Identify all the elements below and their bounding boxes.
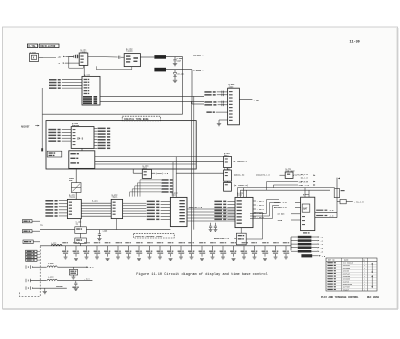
svg-text:CX-201 →: CX-201 → bbox=[193, 54, 204, 57]
capacitor group C201 bbox=[74, 55, 75, 58]
wire battery riser bbox=[336, 181, 338, 218]
label box CLOCK OUT bbox=[154, 68, 166, 72]
wire CM5 to Q205 bbox=[81, 148, 83, 150]
label box X-TAL bbox=[27, 44, 37, 48]
svg-text:-1.5: -1.5 bbox=[329, 215, 333, 217]
wire Q501 B+ display bbox=[315, 211, 337, 213]
svg-text:BAT: BAT bbox=[303, 207, 308, 210]
wire Q103 output lower bbox=[100, 100, 204, 102]
wire row1 left bbox=[33, 266, 47, 268]
svg-text:PLAY AND TIMEBASE CONTROL: PLAY AND TIMEBASE CONTROL bbox=[321, 296, 359, 299]
dashed label DIGITAL TIME BASE bbox=[122, 116, 160, 121]
input label row B1 bbox=[22, 220, 32, 223]
wire Q302 to Q303 bbox=[227, 181, 229, 182]
wire C203 to Q102 bbox=[121, 56, 125, 58]
output labels Q404 right bbox=[253, 200, 256, 202]
wire row3 bbox=[33, 287, 67, 289]
inductor L403 bbox=[47, 279, 57, 280]
svg-text:1: 1 bbox=[364, 281, 365, 283]
svg-text:ADJUST: ADJUST bbox=[21, 125, 30, 128]
wire crystal to supply node bbox=[43, 56, 56, 58]
wire horizontal to DTB box bbox=[43, 113, 183, 115]
svg-text:REGULATOR-1.5: REGULATOR-1.5 bbox=[214, 237, 230, 240]
RC network drops on bus bbox=[62, 242, 68, 259]
wires Q402 to Q403 labels bbox=[123, 202, 147, 204]
wire row B3 bbox=[33, 241, 40, 243]
svg-text:→ MX-3: → MX-3 bbox=[257, 208, 265, 211]
svg-text:Q-501: Q-501 bbox=[303, 193, 310, 196]
svg-text:1: 1 bbox=[364, 268, 365, 270]
wire S402 to bus bbox=[80, 243, 82, 245]
svg-text:L-401: L-401 bbox=[51, 241, 56, 244]
wires fanout to left bbox=[140, 180, 161, 197]
svg-text:C-2065 →: C-2065 → bbox=[193, 69, 204, 72]
svg-text:1: 1 bbox=[364, 265, 365, 267]
label B+ DISPLAY bbox=[316, 210, 323, 211]
wire timebase out upper bbox=[95, 156, 224, 158]
speaker component row1 bbox=[72, 267, 74, 269]
wire timebase internal bbox=[95, 163, 196, 165]
wire Q404 to riser bbox=[254, 212, 263, 214]
wire Q101 to Q103 bbox=[83, 65, 85, 76]
wire row2 to right bbox=[58, 280, 93, 282]
wire sync bend down 2 bbox=[272, 185, 274, 188]
wire Q206 output cont bbox=[176, 172, 223, 174]
wire long vertical D bbox=[193, 96, 195, 229]
svg-text:Figure 11.10 Circuit diagram o: Figure 11.10 Circuit diagram of display … bbox=[136, 272, 268, 277]
input label row B3 bbox=[23, 240, 33, 244]
svg-text:1: 1 bbox=[364, 284, 365, 286]
svg-text:(DISPL)-1.5: (DISPL)-1.5 bbox=[156, 172, 169, 175]
inductor L402 bbox=[47, 266, 57, 267]
svg-text:1: 1 bbox=[364, 276, 365, 278]
wire timebase out mid bbox=[95, 161, 224, 163]
wire riser to regulator line bbox=[262, 213, 264, 240]
wire into Q206 bbox=[132, 169, 134, 173]
battery symbol row3 bbox=[26, 286, 33, 289]
wire left riser bbox=[41, 88, 43, 151]
wire S401 to S402 bbox=[80, 233, 82, 238]
pin labels CM-5 left bbox=[48, 129, 56, 131]
svg-text:CRYSTAL: CRYSTAL bbox=[343, 264, 350, 267]
fuse F501 bbox=[334, 189, 339, 198]
svg-text:BATTERY: BATTERY bbox=[343, 286, 351, 289]
wire power out bbox=[312, 255, 318, 257]
wire B+ to S401 bbox=[40, 229, 75, 231]
parts list table bbox=[326, 258, 377, 291]
wire row B1 bbox=[32, 220, 40, 222]
pin labels Q103 left bbox=[49, 79, 57, 81]
label boxes stack bottom left bbox=[26, 250, 37, 252]
input label row B2 bbox=[22, 230, 32, 233]
wire sync row2 bbox=[273, 184, 298, 186]
wires Q404 top risers bbox=[236, 188, 238, 198]
svg-text:11-30: 11-30 bbox=[350, 41, 360, 45]
svg-text:TRANSF: TRANSF bbox=[343, 288, 349, 291]
svg-text:(SELECT)-1.5: (SELECT)-1.5 bbox=[256, 173, 270, 176]
capacitor C404 with ground bbox=[214, 223, 216, 226]
wire bus B bend to Q201 pins bbox=[192, 103, 204, 105]
svg-text:BATTERY-1.5: BATTERY-1.5 bbox=[274, 206, 287, 209]
battery symbol row1 bbox=[26, 265, 33, 268]
capacitor C402 with ground bbox=[98, 230, 100, 234]
svg-text:DISPLAY: DISPLAY bbox=[343, 272, 351, 275]
output labels CM-5 right bbox=[98, 128, 106, 130]
wire line across bbox=[86, 229, 170, 231]
label box OSCILLATOR bbox=[39, 44, 59, 48]
capacitor C205 with ground bbox=[174, 57, 176, 60]
pin labels Q404 left bbox=[214, 201, 222, 203]
capacitor C203 bbox=[119, 56, 120, 59]
svg-text:75491: 75491 bbox=[112, 196, 119, 199]
svg-text:OSCILLATOR: OSCILLATOR bbox=[40, 45, 56, 48]
IC Q303 divider bbox=[224, 182, 232, 191]
svg-text:REF NO: REF NO bbox=[328, 260, 335, 262]
wire box to trimmer bbox=[75, 169, 77, 183]
wire Q404 down to regulator bbox=[240, 228, 242, 234]
wire Q101 output bbox=[88, 55, 118, 58]
svg-text:← B+-1.5: ← B+-1.5 bbox=[354, 201, 364, 204]
wire elbow bundle B bbox=[250, 203, 279, 217]
svg-text:B. SUPPLY-1: B. SUPPLY-1 bbox=[234, 160, 248, 163]
ground bottom left bbox=[44, 288, 46, 291]
switch box S401 bbox=[75, 227, 87, 234]
capacitor C405 row2 bbox=[75, 281, 77, 283]
svg-text:5316: 5316 bbox=[237, 194, 243, 197]
label below Q501 bbox=[303, 232, 307, 233]
wire row1 to right bbox=[58, 266, 87, 268]
svg-text:CM-5: CM-5 bbox=[77, 137, 84, 140]
svg-text:R-401: R-401 bbox=[92, 199, 99, 202]
wires Q403 top risers bbox=[172, 162, 174, 198]
svg-text:1: 1 bbox=[364, 287, 365, 289]
wire bracket left of Q103 bbox=[41, 113, 43, 115]
wire row2 left bbox=[30, 280, 46, 282]
page edge shadow bottom bbox=[3, 308, 398, 310]
svg-text:1: 1 bbox=[364, 263, 365, 265]
wire Q102 output bbox=[140, 56, 154, 58]
wire regulator output bbox=[246, 238, 262, 240]
svg-text:NAME: NAME bbox=[344, 259, 348, 262]
svg-text:CR-201: CR-201 bbox=[177, 73, 185, 76]
wire Q103 output upper bbox=[100, 95, 204, 97]
output label boxes stack right bbox=[298, 236, 312, 239]
svg-text:BT-1.5: BT-1.5 bbox=[301, 180, 309, 183]
wire Q201 output right bbox=[239, 99, 252, 101]
diode CR201 with ground bbox=[174, 70, 176, 73]
IC Q205 selector box bbox=[69, 151, 95, 169]
wire sync row1 bbox=[267, 181, 298, 183]
pin labels Q201 group1 bbox=[204, 91, 211, 93]
svg-text:74S00: 74S00 bbox=[126, 50, 133, 53]
svg-text:L-402: L-402 bbox=[48, 262, 53, 265]
wire tie vertical right stack bbox=[290, 237, 292, 250]
battery sub box bbox=[302, 204, 310, 212]
wire K501 bbox=[337, 201, 340, 203]
wire elbow bundle C bbox=[250, 206, 279, 219]
regulator Q405 bbox=[236, 233, 246, 245]
wire Q301 to Q302 bbox=[227, 168, 229, 170]
label box 1MHZ OUT bbox=[154, 55, 166, 59]
svg-text:REF 8060: REF 8060 bbox=[367, 296, 380, 299]
wires Q403 to Q404 bbox=[187, 208, 235, 210]
svg-text:X-TAL: X-TAL bbox=[28, 45, 36, 48]
pin labels fanout stack bbox=[161, 179, 168, 181]
capacitor C403 with ground bbox=[210, 223, 212, 226]
svg-text:L-403: L-403 bbox=[48, 276, 53, 279]
wire trimmer down bbox=[75, 192, 77, 199]
wire long vertical C bbox=[190, 101, 192, 245]
ground Q201 bbox=[218, 120, 220, 123]
wire vertical bus B bbox=[191, 70, 193, 104]
svg-text:CR ROM: CR ROM bbox=[278, 213, 286, 216]
svg-text:→ MX-2: → MX-2 bbox=[257, 204, 265, 207]
wire Q102 feedback loop bbox=[96, 66, 131, 69]
svg-text:→ MX-1: → MX-1 bbox=[257, 200, 265, 203]
svg-text:(H. DISPL.H): (H. DISPL.H) bbox=[234, 184, 248, 187]
wire Q501 lower out bbox=[315, 217, 337, 219]
wire supply to caps bbox=[65, 55, 73, 57]
wire clock out bbox=[166, 69, 192, 71]
battery symbol row2 bbox=[26, 279, 30, 282]
pin labels Q201 group3 bbox=[206, 111, 211, 113]
svg-text:(DECOL.H): (DECOL.H) bbox=[234, 174, 245, 177]
wire elbow bundle A bbox=[250, 200, 279, 214]
wires CM-5 to output labels bbox=[94, 127, 97, 129]
svg-text:SYNC -1.5: SYNC -1.5 bbox=[299, 184, 310, 187]
label lower out bbox=[316, 215, 323, 216]
dashed enclosure bottom left bbox=[19, 246, 40, 296]
wire Q206 output to divider chain bbox=[151, 172, 155, 174]
dashed label DISPLAY CONTROL LOGIC bbox=[134, 234, 175, 238]
svg-text:COMMON: COMMON bbox=[56, 286, 62, 288]
switch box S402 bbox=[75, 238, 87, 243]
component K501 on riser bbox=[340, 199, 346, 203]
pin labels Q403 left bbox=[147, 201, 155, 203]
pin labels Q201 group2 bbox=[204, 101, 212, 103]
svg-text:REGULATOR: REGULATOR bbox=[343, 283, 353, 286]
wire Q401 down bbox=[80, 219, 82, 227]
wire main bus bbox=[40, 245, 291, 247]
svg-text:DISPLAY-1.5: DISPLAY-1.5 bbox=[189, 206, 203, 209]
page edge shadow right bbox=[397, 28, 399, 309]
label box power out bbox=[301, 254, 312, 257]
wire fuse top arrow bbox=[336, 178, 338, 181]
wires Q401 to Q402 bbox=[81, 202, 111, 204]
svg-text:1: 1 bbox=[364, 271, 365, 273]
capacitor ticks Q201 pins bbox=[222, 91, 223, 94]
wire Q101 feedback loop bbox=[69, 56, 84, 68]
wire sync band lower bbox=[240, 189, 330, 191]
wire Q402 down to B+ line bbox=[116, 219, 118, 230]
inductor L401 on bus bbox=[51, 244, 62, 246]
connector P101 bbox=[47, 151, 62, 157]
svg-text:→ MX: → MX bbox=[254, 99, 260, 102]
svg-text:1: 1 bbox=[364, 273, 365, 275]
box digital time base outline bbox=[46, 121, 196, 169]
svg-text:1: 1 bbox=[364, 289, 365, 291]
svg-text:75492: 75492 bbox=[69, 196, 76, 199]
wire band risers to Q501 bbox=[304, 188, 306, 198]
wire sync band upper bbox=[237, 187, 334, 189]
svg-text:→ B.V: → B.V bbox=[84, 278, 91, 281]
wire vertical bus A bbox=[182, 57, 184, 115]
wire -C to Q101 bbox=[65, 62, 79, 64]
wire row B2 bbox=[32, 230, 40, 232]
wire sync bend down 1 bbox=[266, 182, 268, 191]
wire to C204 bbox=[166, 56, 183, 58]
svg-text:DISPLAY CONTROL LOGIC: DISPLAY CONTROL LOGIC bbox=[135, 235, 163, 238]
svg-text:1: 1 bbox=[364, 279, 365, 281]
svg-text:-1.5: -1.5 bbox=[329, 210, 333, 212]
pin labels Q401 left bbox=[45, 200, 53, 202]
